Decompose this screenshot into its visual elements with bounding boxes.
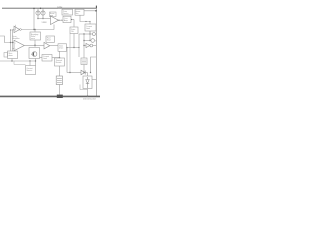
pin circle 1 [92, 33, 95, 36]
GND pin blob [57, 95, 63, 98]
pin tick top-right corner [95, 6, 97, 9]
wire W2 [14, 61, 26, 65]
wire Z bottom to gnd [87, 89, 89, 97]
wire T2 to output pin [84, 10, 96, 12]
box C current limit [42, 55, 52, 62]
comparator Tc [14, 26, 20, 32]
svg-text:down: down [9, 55, 13, 57]
svg-text:+: + [15, 43, 17, 45]
box F [85, 24, 96, 31]
rail x12.5 [12, 30, 14, 52]
rail x84 [83, 34, 85, 58]
wire B bottom to resistor [59, 66, 61, 76]
svg-text:Amp: Amp [64, 19, 68, 22]
node on rail x34 [33, 8, 34, 9]
wire H top [29, 61, 31, 66]
wire G bottom to node [73, 34, 75, 48]
node W1 b [29, 60, 30, 61]
current source IS2 [41, 8, 45, 18]
rail Q bottom [35, 59, 37, 66]
wire K bottom [83, 65, 85, 73]
wire BG top [34, 30, 36, 33]
node x84 y34 [83, 33, 84, 34]
wire F bottom [89, 31, 91, 34]
svg-text:VIN: VIN [57, 6, 62, 10]
box H [26, 66, 36, 75]
node IS1 bottom [37, 18, 38, 19]
box BG bandgap [30, 32, 41, 40]
node rail Q [35, 60, 36, 61]
error amp U2 [14, 40, 24, 51]
pin circle 2 [91, 39, 95, 43]
feedback tap from right border [91, 57, 97, 73]
wire U2 minus input [13, 47, 15, 49]
wire Tc input [13, 29, 15, 31]
wire y40 [84, 40, 91, 42]
node B top [59, 57, 60, 58]
svg-text:Device: Device [63, 13, 69, 15]
rail x10.5 [10, 30, 12, 51]
node E out [71, 19, 72, 20]
wire C to B [52, 57, 60, 59]
wire down from 79.5 [78, 34, 80, 57]
rail x70 [69, 34, 71, 73]
rail x67 [66, 48, 68, 73]
wire rail x34 [33, 8, 35, 29]
box T1 [62, 9, 73, 15]
box G [70, 27, 78, 34]
frame top border [2, 7, 97, 9]
wire current sources to op-amp [38, 18, 51, 20]
wire G top to E node [73, 20, 75, 28]
wire T2 bottom down [80, 15, 90, 21]
node rail2 [12, 42, 13, 43]
wire Z right to border [92, 79, 96, 81]
bubble [20, 29, 22, 31]
svg-text:Start: Start [47, 39, 51, 42]
svg-text:Shutdn: Shutdn [56, 61, 62, 64]
node at 86 [85, 21, 86, 22]
wire D out [67, 47, 80, 49]
node at 35 [34, 45, 35, 46]
node W1 a [11, 60, 12, 61]
wire BG bottom arrow [34, 40, 36, 45]
wire D bottom to B top [59, 51, 61, 57]
wire down to box F [89, 22, 91, 25]
current source IS1 [36, 8, 40, 18]
frame bottom border [0, 95, 100, 97]
box D [58, 44, 67, 52]
wire Z lower-left L [80, 85, 88, 90]
wire SD bottom [11, 59, 13, 62]
node x34 on wire [33, 29, 34, 30]
box ref above op-amp U1 [50, 12, 57, 17]
node on rail x40.5 [40, 8, 42, 10]
wire up to U1 [53, 25, 55, 30]
box T2 [75, 9, 84, 15]
frame right border [95, 8, 97, 97]
left pin wire jog [0, 36, 14, 43]
wire y34 [79, 33, 92, 35]
box Z zener [83, 76, 92, 89]
box SD shutdown [8, 51, 18, 59]
resistor Rg [56, 76, 62, 85]
wire Q to C [40, 56, 43, 58]
node x84 y40 [83, 40, 84, 41]
svg-text:Drive: Drive [59, 48, 63, 50]
wire E out to node [71, 19, 74, 21]
svg-text:ence: ence [31, 38, 35, 40]
tab box [4, 53, 8, 58]
wire U2 out [24, 45, 44, 47]
wire W1 shutdown pin [0, 60, 36, 62]
svg-text:Source: Source [27, 70, 33, 72]
svg-text:VREF: VREF [42, 22, 48, 24]
svg-text:Amplifier: Amplifier [13, 37, 20, 40]
box B thermal [55, 58, 65, 66]
node Z gnd [87, 95, 88, 96]
svg-text:0001234-002: 0001234-002 [83, 99, 97, 100]
box E driver [63, 16, 71, 22]
node rail1 [10, 42, 11, 43]
node D out [73, 47, 74, 48]
svg-text:Res: Res [75, 13, 78, 15]
node y72.5 [69, 72, 70, 73]
buffer triangle Tb [44, 42, 50, 49]
svg-text:Limit: Limit [86, 27, 90, 30]
svg-text:Limit: Limit [43, 57, 47, 60]
diode D2 to pin [84, 45, 86, 47]
wire L stub [11, 25, 16, 30]
rail x90 [89, 31, 91, 41]
wire U1 out arrow [59, 19, 64, 21]
node IS2 bottom [42, 18, 43, 19]
wire diode to box Z [85, 72, 87, 74]
wire Rg to gnd [59, 85, 61, 97]
wire y72.5 [67, 72, 81, 74]
box K [81, 58, 87, 65]
box FT [46, 36, 55, 42]
box Q with transistor [29, 48, 40, 59]
wire Tb out [50, 45, 58, 47]
node output pin [95, 10, 97, 12]
svg-text:N: N [95, 41, 97, 43]
node f bottom [89, 33, 90, 34]
wire Tc out long [21, 29, 54, 31]
node BG top [34, 29, 35, 30]
node rail x10.5 top [10, 29, 11, 30]
op-amp U1 [51, 16, 59, 25]
diode D1 [81, 70, 85, 74]
